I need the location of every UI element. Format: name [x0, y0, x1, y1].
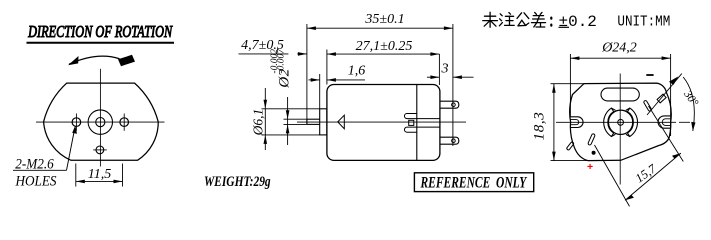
svg-text:±0.2: ±0.2: [559, 13, 597, 31]
svg-text:HOLES: HOLES: [15, 173, 57, 190]
svg-text:11,5: 11,5: [88, 167, 111, 182]
svg-text:2-M2.6: 2-M2.6: [15, 156, 53, 173]
svg-text:REFERENCE ONLY: REFERENCE ONLY: [420, 175, 528, 192]
svg-text:Ø6,1: Ø6,1: [250, 109, 265, 137]
svg-text:15,7: 15,7: [633, 161, 660, 185]
svg-text:Ø24,2: Ø24,2: [601, 41, 637, 56]
svg-text:WEIGHT:29g: WEIGHT:29g: [204, 173, 271, 190]
svg-text:-0.007: -0.007: [277, 48, 287, 74]
svg-text:DIRECTION OF ROTATION: DIRECTION OF ROTATION: [27, 23, 173, 41]
svg-text:1,6: 1,6: [348, 64, 366, 79]
svg-text:3: 3: [441, 62, 449, 77]
svg-text:18,3: 18,3: [531, 112, 547, 141]
svg-text:+: +: [587, 161, 593, 173]
svg-text:27,1±0.25: 27,1±0.25: [356, 39, 413, 54]
svg-text:UNIT:MM: UNIT:MM: [617, 14, 670, 31]
svg-text:30°: 30°: [681, 88, 701, 109]
svg-text:35±0.1: 35±0.1: [364, 12, 404, 27]
